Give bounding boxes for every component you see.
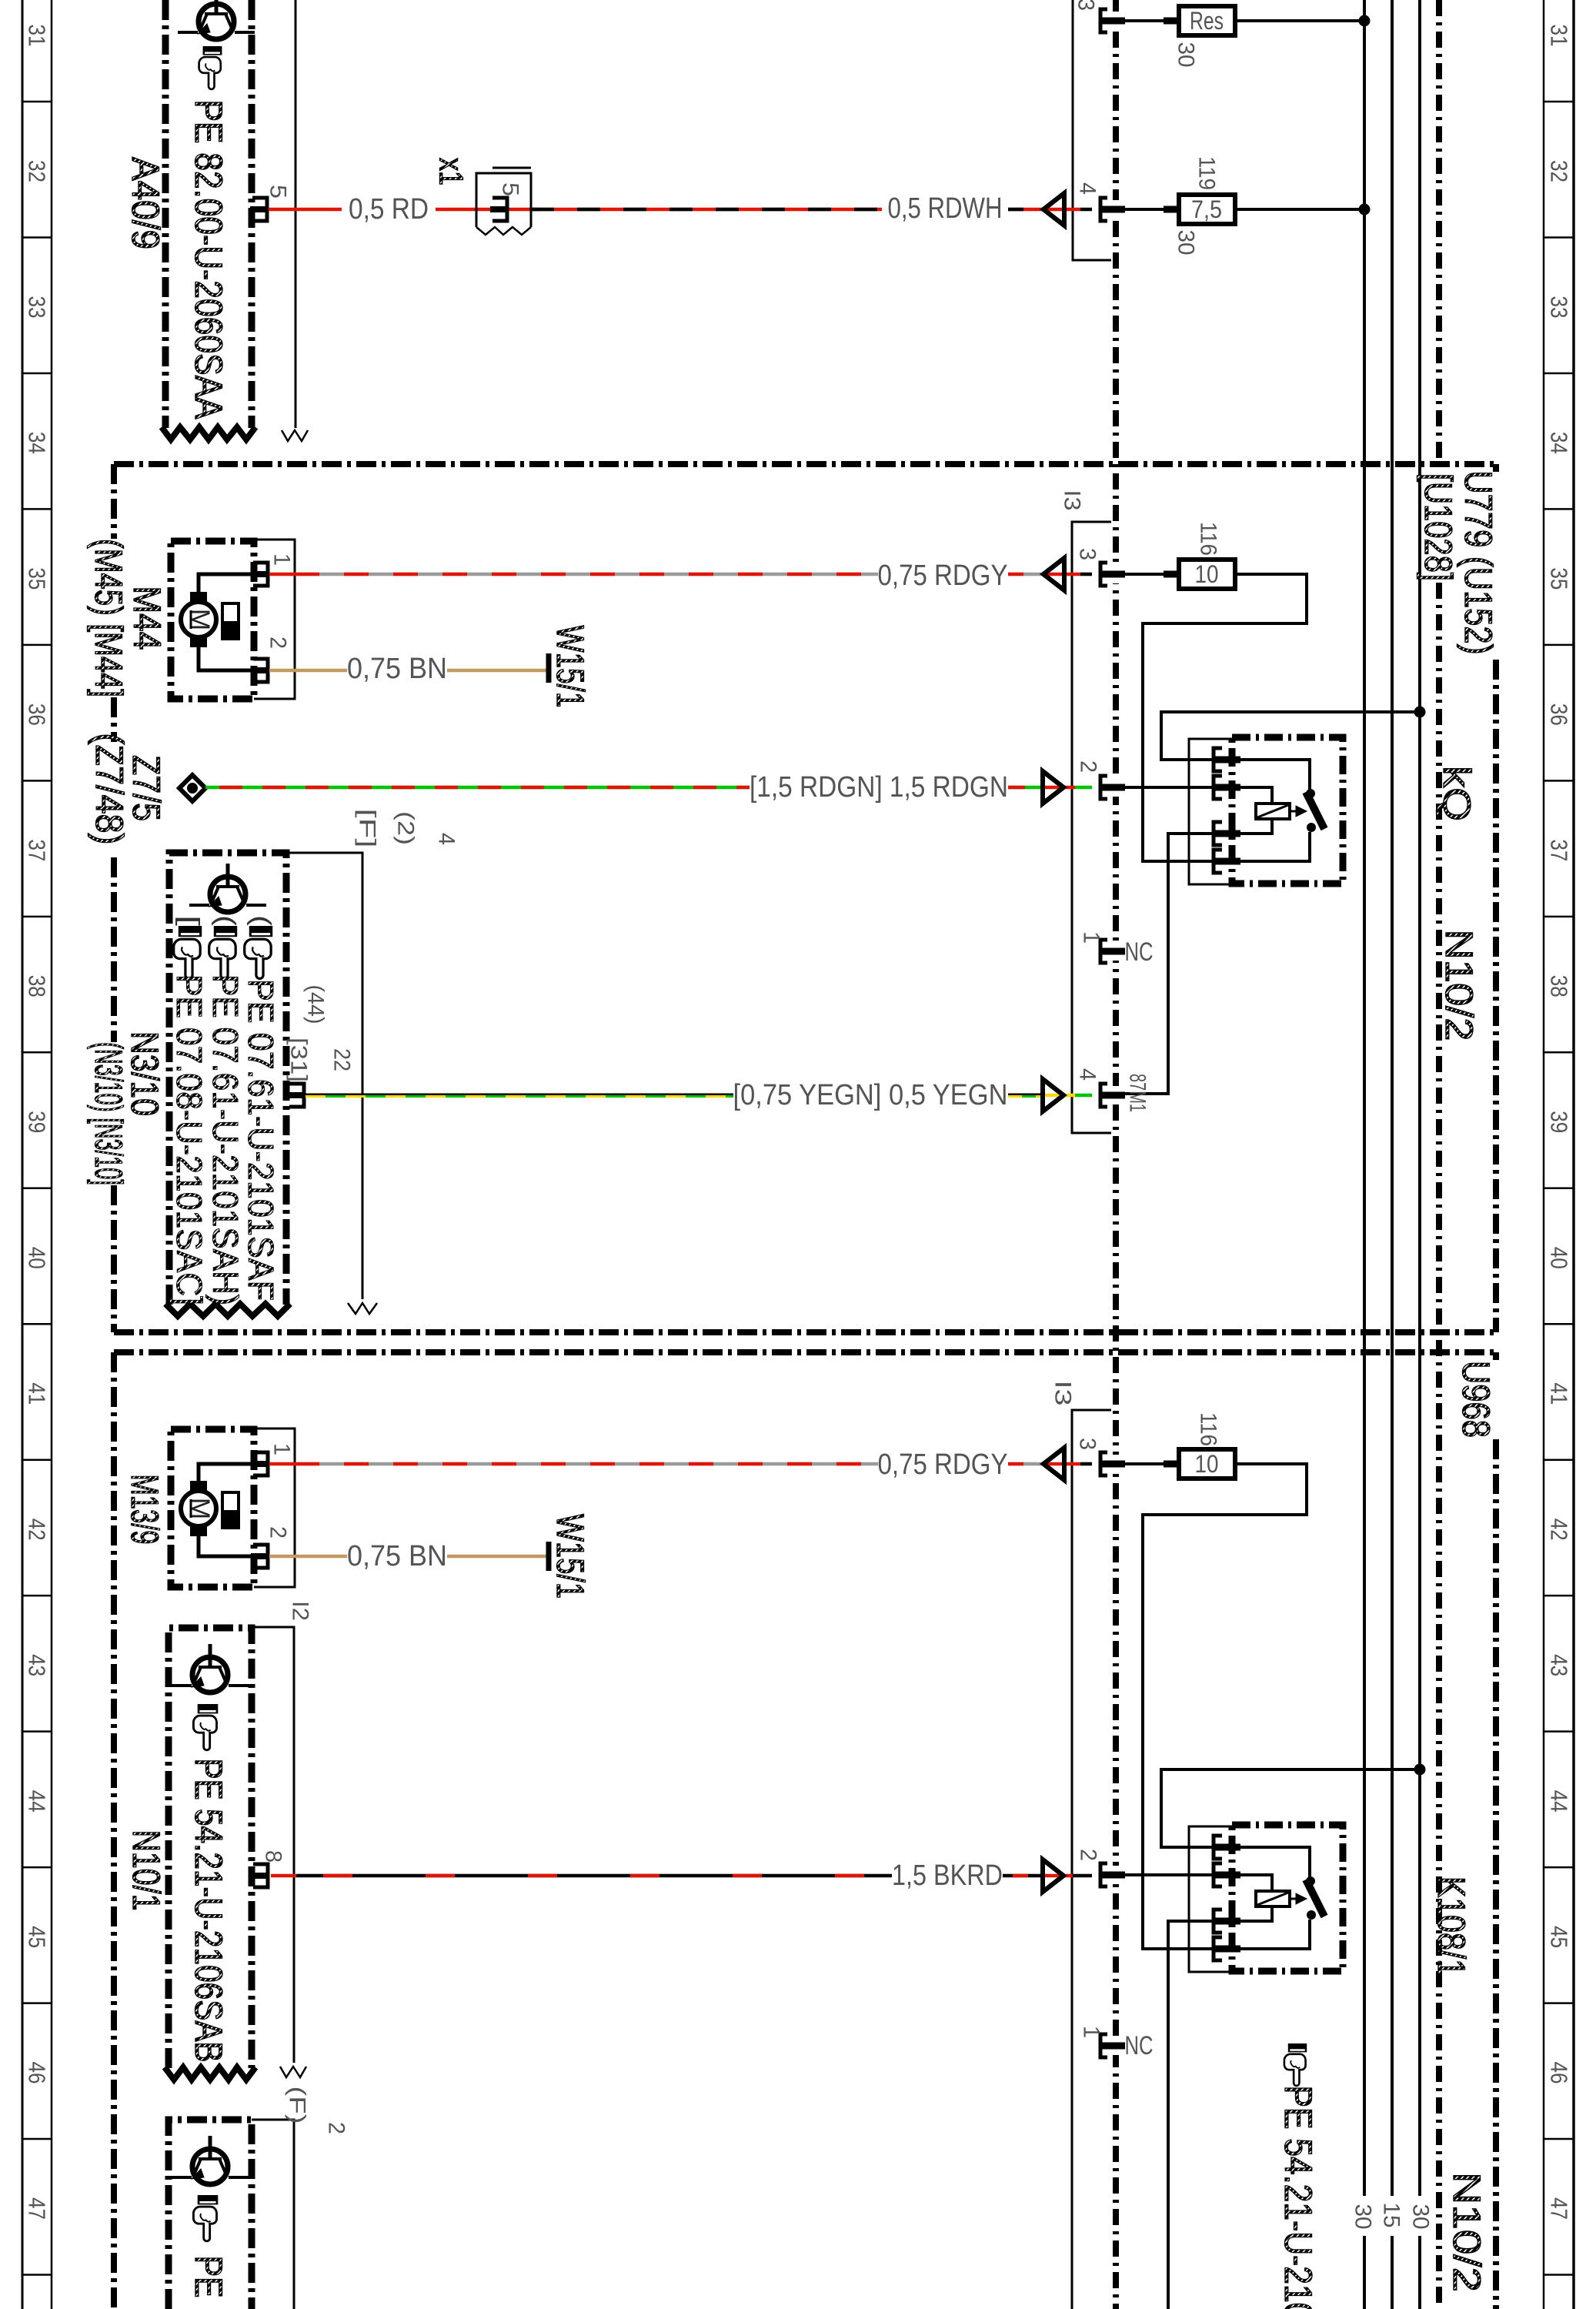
svg-text:5: 5 (265, 185, 291, 199)
svg-text:32: 32 (24, 160, 51, 182)
svg-text:K108/1: K108/1 (1430, 1876, 1473, 1977)
svg-text:3: 3 (1075, 548, 1100, 560)
svg-text:2: 2 (265, 1526, 291, 1539)
svg-text:PE 07.08-U-2101SAC]: PE 07.08-U-2101SAC] (169, 974, 209, 1305)
svg-text:37: 37 (24, 839, 51, 861)
svg-text:45: 45 (24, 1926, 51, 1948)
svg-text:10: 10 (1195, 1450, 1219, 1478)
svg-text:PE: PE (187, 2256, 230, 2298)
svg-text:116: 116 (1196, 1412, 1221, 1446)
svg-text:kQ: kQ (1435, 766, 1478, 821)
svg-text:3: 3 (1075, 1438, 1100, 1450)
svg-text:U968: U968 (1454, 1361, 1498, 1438)
svg-text:30: 30 (1174, 42, 1199, 68)
svg-text:PE 54.21-U-2106SAB: PE 54.21-U-2106SAB (1277, 2086, 1320, 2309)
svg-text:0,75 RDGY: 0,75 RDGY (878, 560, 1008, 592)
svg-text:4: 4 (434, 833, 459, 845)
svg-text:2: 2 (324, 2122, 349, 2134)
svg-text:M44: M44 (125, 586, 169, 650)
svg-text:1: 1 (269, 1443, 295, 1455)
svg-text:U779 (U152): U779 (U152) (1457, 471, 1500, 655)
svg-text:22: 22 (329, 1048, 355, 1071)
svg-text:(: ( (211, 915, 240, 927)
svg-text:M13/9: M13/9 (123, 1475, 166, 1545)
svg-text:0,5 RD: 0,5 RD (349, 193, 429, 226)
svg-text:5: 5 (498, 182, 523, 196)
svg-text:[31]: [31] (286, 1038, 312, 1082)
svg-text:2: 2 (1076, 760, 1101, 773)
svg-text:10: 10 (1195, 560, 1219, 588)
svg-text:119: 119 (1194, 156, 1220, 190)
svg-text:36: 36 (24, 703, 51, 726)
svg-text:7,5: 7,5 (1191, 195, 1222, 223)
svg-text:(44): (44) (303, 985, 329, 1024)
svg-text:43: 43 (1546, 1654, 1573, 1676)
svg-text:31: 31 (1546, 25, 1573, 47)
svg-text:NC: NC (1125, 937, 1154, 967)
svg-text:38: 38 (1546, 975, 1573, 997)
svg-text:15: 15 (1379, 2203, 1404, 2228)
svg-text:(M45) [M44]: (M45) [M44] (87, 539, 130, 697)
svg-text:87M1: 87M1 (1125, 1074, 1150, 1112)
svg-text:1: 1 (269, 553, 295, 566)
svg-text:2: 2 (1076, 1849, 1101, 1861)
svg-text:42: 42 (1546, 1519, 1573, 1541)
svg-text:32: 32 (1546, 160, 1573, 182)
svg-text:(F): (F) (285, 2087, 310, 2124)
svg-text:(Z7/48): (Z7/48) (88, 733, 131, 845)
svg-text:47: 47 (24, 2197, 51, 2220)
svg-text:46: 46 (24, 2062, 51, 2084)
svg-text:N10/2: N10/2 (1445, 2172, 1488, 2292)
svg-text:(2): (2) (393, 811, 419, 845)
svg-text:1: 1 (1079, 2026, 1104, 2038)
svg-text:39: 39 (1546, 1111, 1573, 1133)
svg-text:47: 47 (1546, 2197, 1573, 2220)
svg-text:2: 2 (265, 637, 291, 649)
svg-text:0,75 BN: 0,75 BN (347, 1540, 447, 1572)
svg-text:30: 30 (1174, 230, 1199, 256)
svg-text:I3: I3 (1060, 490, 1085, 511)
svg-text:35: 35 (1546, 567, 1573, 590)
svg-text:36: 36 (1546, 703, 1573, 726)
svg-text:Res: Res (1190, 7, 1224, 35)
svg-text:W15/1: W15/1 (549, 1514, 592, 1599)
svg-text:[1,5 RDGN] 1,5 RDGN: [1,5 RDGN] 1,5 RDGN (750, 771, 1008, 804)
svg-text:(: ( (246, 915, 275, 927)
svg-text:N10/1: N10/1 (125, 1830, 168, 1911)
svg-text:33: 33 (24, 296, 51, 318)
svg-text:A40/9: A40/9 (124, 157, 167, 249)
svg-text:34: 34 (1546, 432, 1573, 454)
svg-text:4: 4 (1075, 182, 1100, 195)
svg-text:PE 07.61-U-2101SAH): PE 07.61-U-2101SAH) (205, 974, 245, 1305)
svg-text:40: 40 (24, 1247, 51, 1269)
svg-text:35: 35 (24, 567, 51, 590)
svg-text:0,75 RDGY: 0,75 RDGY (878, 1449, 1008, 1481)
svg-text:[U1028]: [U1028] (1417, 473, 1460, 581)
svg-text:x1: x1 (432, 158, 470, 185)
svg-text:38: 38 (24, 975, 51, 997)
svg-text:4: 4 (1075, 1068, 1100, 1081)
svg-text:8: 8 (261, 1850, 286, 1863)
svg-text:1,5 BKRD: 1,5 BKRD (892, 1860, 1003, 1892)
svg-text:PE 07.61-U-2101SAF: PE 07.61-U-2101SAF (241, 979, 281, 1301)
svg-text:41: 41 (1546, 1382, 1573, 1405)
svg-text:(N3/10) [N3/10]: (N3/10) [N3/10] (87, 1042, 130, 1185)
svg-text:43: 43 (24, 1654, 51, 1676)
svg-text:Z7/5: Z7/5 (125, 755, 168, 821)
svg-text:N10/2: N10/2 (1437, 930, 1481, 1041)
svg-text:W15/1: W15/1 (549, 626, 592, 708)
svg-text:30: 30 (1351, 2204, 1376, 2230)
svg-text:PE 54.21-U-2106SAB: PE 54.21-U-2106SAB (187, 1759, 230, 2063)
svg-text:[0,75 YEGN] 0,5 YEGN: [0,75 YEGN] 0,5 YEGN (733, 1079, 1008, 1111)
svg-text:PE 82.00-U-2060SAA: PE 82.00-U-2060SAA (187, 100, 230, 420)
svg-text:40: 40 (1546, 1247, 1573, 1269)
svg-text:44: 44 (1546, 1790, 1573, 1813)
svg-text:45: 45 (1546, 1926, 1573, 1948)
svg-text:31: 31 (24, 25, 51, 47)
svg-text:[F]: [F] (355, 809, 380, 848)
svg-text:I2: I2 (288, 1601, 313, 1621)
svg-text:33: 33 (1546, 296, 1573, 318)
svg-text:3: 3 (1073, 0, 1099, 11)
svg-text:34: 34 (24, 432, 51, 454)
svg-text:41: 41 (24, 1382, 51, 1405)
svg-text:0,75 BN: 0,75 BN (347, 653, 447, 685)
svg-text:[: [ (175, 915, 204, 927)
svg-text:42: 42 (24, 1519, 51, 1541)
svg-text:46: 46 (1546, 2062, 1573, 2084)
svg-text:44: 44 (24, 1790, 51, 1813)
svg-text:37: 37 (1546, 839, 1573, 861)
svg-text:116: 116 (1196, 522, 1221, 556)
svg-text:30: 30 (1408, 2204, 1434, 2230)
svg-text:I3: I3 (1050, 1381, 1076, 1406)
svg-text:0,5 RDWH: 0,5 RDWH (888, 192, 1003, 225)
svg-text:NC: NC (1125, 2031, 1154, 2060)
svg-text:1: 1 (1079, 931, 1104, 944)
svg-text:39: 39 (24, 1111, 51, 1133)
